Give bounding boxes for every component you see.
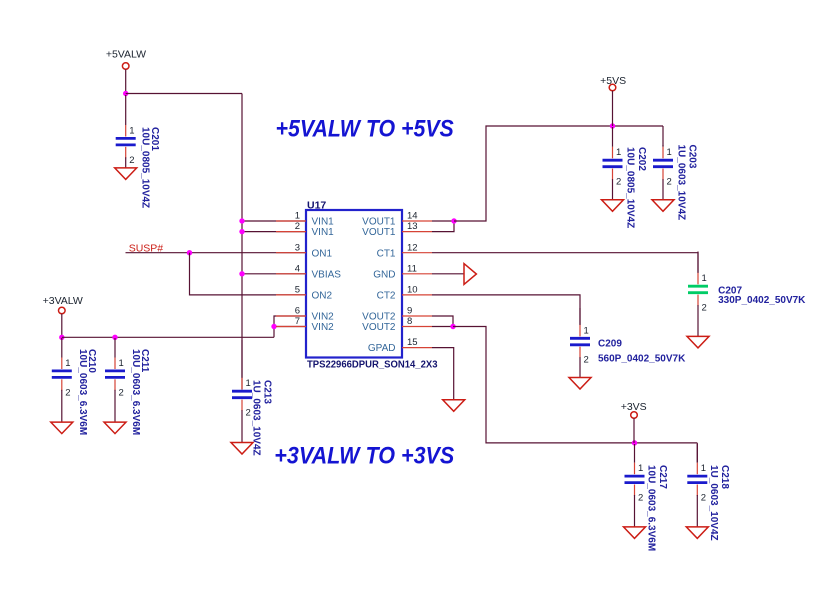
svg-text:1: 1 bbox=[584, 325, 589, 336]
wire SUSP# to ON1 pin 3 bbox=[126, 252, 307, 254]
svg-text:GPAD: GPAD bbox=[368, 343, 396, 354]
svg-text:7: 7 bbox=[295, 316, 300, 327]
svg-text:11: 11 bbox=[407, 263, 417, 274]
pin stub pin 2 bbox=[276, 231, 306, 233]
pin stub C207.1 bbox=[697, 273, 699, 285]
svg-text:C213: C213 bbox=[261, 380, 272, 404]
svg-text:U17: U17 bbox=[307, 200, 326, 212]
svg-text:10U_0805_10V4Z: 10U_0805_10V4Z bbox=[624, 147, 635, 228]
wire +5VS rail down to C203 bbox=[662, 126, 664, 147]
svg-text:6: 6 bbox=[295, 306, 300, 317]
wire GPAD pin 15 to ground bbox=[432, 348, 454, 400]
wire C207 pin 2 bbox=[697, 305, 699, 337]
svg-text:560P_0402_50V7K: 560P_0402_50V7K bbox=[598, 353, 686, 364]
wire VOUT2 pin 8 bbox=[432, 326, 453, 328]
svg-text:1: 1 bbox=[295, 211, 300, 222]
junction VOUT2 bbox=[450, 324, 455, 329]
wire C202 pin 1 bbox=[612, 127, 614, 147]
pin stub C210.2 bbox=[61, 379, 63, 391]
svg-text:VIN1: VIN1 bbox=[312, 217, 335, 228]
svg-text:+5VALW TO +5VS: +5VALW TO +5VS bbox=[276, 115, 454, 142]
svg-text:VIN2: VIN2 bbox=[312, 322, 335, 333]
wire C201 pin 1 bbox=[125, 95, 127, 125]
pin stub pin 11 bbox=[402, 273, 432, 275]
svg-text:10U_0603_6.3V6M: 10U_0603_6.3V6M bbox=[646, 465, 657, 551]
pin stub pin 10 bbox=[402, 294, 432, 296]
capacitor C202 bbox=[603, 160, 623, 167]
wire C209 pin 2 bbox=[579, 357, 581, 378]
capacitor C213 bbox=[232, 391, 252, 398]
wire C203 pin 1 bbox=[662, 145, 664, 147]
wire C217 pin 1 bbox=[634, 444, 636, 463]
junction C211 bbox=[112, 335, 117, 340]
svg-text:1: 1 bbox=[119, 358, 124, 369]
svg-text:VBIAS: VBIAS bbox=[312, 269, 342, 280]
svg-text:1: 1 bbox=[129, 125, 134, 136]
junction SUSP# branch bbox=[187, 250, 192, 255]
wire CT2 pin 10 to C209 bbox=[432, 295, 580, 325]
svg-text:GND: GND bbox=[373, 269, 395, 280]
wire +3VALW from power symbol bbox=[61, 314, 63, 338]
junction +3VALW / C210 bbox=[59, 335, 64, 340]
pin stub pin 3 bbox=[276, 252, 306, 254]
svg-text:10U_0805_10V4Z: 10U_0805_10V4Z bbox=[139, 127, 150, 208]
ground for C202 bbox=[602, 200, 624, 212]
wire C209 pin 1 bbox=[579, 308, 581, 325]
svg-text:1U_0603_10V4Z: 1U_0603_10V4Z bbox=[708, 465, 719, 541]
svg-text:2: 2 bbox=[65, 387, 70, 398]
pin stub C217.1 bbox=[634, 463, 636, 475]
svg-text:VOUT1: VOUT1 bbox=[362, 217, 396, 228]
wire VOUT1 pin 14 bbox=[432, 220, 454, 222]
junction at VIN1 pin 2 bbox=[239, 229, 244, 234]
wire +3VALW up to VIN2 pins bbox=[274, 316, 306, 337]
wire C211 pin 2 bbox=[114, 390, 116, 423]
wire C217 pin 2 bbox=[634, 495, 636, 527]
wire C218 pin 2 bbox=[696, 495, 698, 527]
wire to VIN2 pin 7 bbox=[274, 326, 306, 328]
svg-text:1U_0603_10V4Z: 1U_0603_10V4Z bbox=[676, 145, 687, 221]
pin stub C213.2 bbox=[241, 400, 243, 412]
junction +5VS / C202 bbox=[610, 123, 615, 128]
svg-text:2: 2 bbox=[702, 303, 707, 314]
svg-text:2: 2 bbox=[616, 177, 621, 188]
svg-text:2: 2 bbox=[638, 493, 643, 504]
svg-text:10U_0603_6.3V6M: 10U_0603_6.3V6M bbox=[77, 349, 88, 435]
wire VOUT2 to +3VS rail bbox=[453, 327, 697, 443]
svg-text:VIN1: VIN1 bbox=[312, 227, 335, 238]
pin stub C201.1 bbox=[125, 125, 127, 137]
svg-text:10U_0603_6.3V6M: 10U_0603_6.3V6M bbox=[130, 349, 141, 435]
junction +5VALW / C201 bbox=[123, 91, 128, 96]
svg-text:8: 8 bbox=[407, 316, 412, 327]
wire +3VS from power symbol bbox=[633, 418, 635, 443]
svg-text:VIN2: VIN2 bbox=[312, 312, 335, 323]
wire C210 pin 1 bbox=[61, 338, 63, 358]
svg-text:+5VS: +5VS bbox=[600, 75, 626, 87]
svg-text:15: 15 bbox=[407, 337, 418, 348]
svg-text:12: 12 bbox=[407, 242, 418, 253]
capacitor C210 bbox=[52, 371, 72, 378]
capacitor C203 bbox=[653, 160, 673, 167]
pin stub pin 15 bbox=[402, 347, 432, 349]
svg-text:CT1: CT1 bbox=[377, 248, 396, 259]
svg-text:1: 1 bbox=[246, 378, 251, 389]
pin stub C201.2 bbox=[125, 147, 127, 159]
svg-text:14: 14 bbox=[407, 211, 418, 222]
power symbol +5VS bbox=[609, 84, 616, 91]
svg-text:C202: C202 bbox=[636, 147, 647, 171]
svg-text:1: 1 bbox=[667, 147, 672, 158]
pin stub C213.1 bbox=[241, 378, 243, 390]
svg-text:3: 3 bbox=[295, 242, 300, 253]
svg-text:C209: C209 bbox=[598, 338, 622, 349]
junction at VIN1 pin 1 bbox=[239, 218, 244, 223]
svg-text:TPS22966DPUR_SON14_2X3: TPS22966DPUR_SON14_2X3 bbox=[307, 359, 438, 371]
wire C203 pin 2 bbox=[662, 179, 664, 200]
wire C207 pin 1 bbox=[697, 252, 699, 273]
svg-text:1: 1 bbox=[616, 147, 621, 158]
wire C202 pin 2 bbox=[612, 179, 614, 200]
pin stub pin 1 bbox=[276, 220, 306, 222]
wire VOUT2 pin 9 down bbox=[432, 316, 453, 327]
wire to pin 2 bbox=[242, 231, 306, 233]
capacitor C218 bbox=[687, 476, 707, 483]
svg-text:CT2: CT2 bbox=[377, 291, 396, 302]
svg-text:9: 9 bbox=[407, 306, 412, 317]
pin stub C203.2 bbox=[662, 169, 664, 181]
wire CT1 pin 12 to C207 bbox=[432, 253, 698, 273]
wire GND pin 11 bbox=[432, 273, 464, 275]
pin stub C209.1 bbox=[579, 325, 581, 337]
pin stub C202.1 bbox=[612, 147, 614, 159]
pin stub pin 13 bbox=[402, 231, 432, 233]
ground for C213 bbox=[231, 443, 253, 455]
pin stub C211.2 bbox=[114, 379, 116, 391]
pin stub C207.2 bbox=[697, 295, 699, 307]
svg-text:2: 2 bbox=[667, 177, 672, 188]
wire +5VALW horizontal to vertical bus bbox=[126, 93, 242, 95]
power symbol +3VS bbox=[631, 412, 638, 419]
IC U17 TPS22966 body bbox=[306, 210, 402, 358]
svg-text:ON1: ON1 bbox=[312, 248, 333, 259]
junction at VBIAS pin 4 bbox=[239, 271, 244, 276]
off-page connector GND arrow bbox=[464, 264, 476, 285]
svg-text:5: 5 bbox=[295, 285, 300, 296]
svg-text:ON2: ON2 bbox=[312, 291, 333, 302]
svg-text:C218: C218 bbox=[719, 465, 730, 489]
pin stub pin 8 bbox=[402, 326, 432, 328]
svg-text:1: 1 bbox=[702, 273, 707, 284]
svg-text:2: 2 bbox=[701, 493, 706, 504]
svg-text:C217: C217 bbox=[657, 465, 668, 489]
svg-text:13: 13 bbox=[407, 221, 418, 232]
pin stub pin 9 bbox=[402, 315, 432, 317]
pin stub C210.1 bbox=[61, 358, 63, 370]
pin stub C209.2 bbox=[579, 347, 581, 359]
svg-text:C203: C203 bbox=[686, 145, 697, 169]
wire C218 pin 1 bbox=[696, 444, 698, 463]
svg-text:2: 2 bbox=[246, 408, 251, 419]
capacitor C211 bbox=[105, 371, 125, 378]
power symbol +3VALW bbox=[59, 307, 66, 314]
pin stub C217.2 bbox=[634, 485, 636, 497]
capacitor C217 bbox=[625, 476, 645, 483]
wire VOUT1 up to +5VS rail bbox=[454, 126, 663, 221]
svg-text:1: 1 bbox=[65, 358, 70, 369]
svg-text:2: 2 bbox=[295, 221, 300, 232]
ground for GPAD bbox=[443, 400, 465, 412]
wire to pin 4 bbox=[242, 273, 306, 275]
svg-text:VOUT2: VOUT2 bbox=[362, 322, 396, 333]
power symbol +5VALW bbox=[122, 63, 129, 70]
svg-text:+3VALW: +3VALW bbox=[43, 295, 83, 307]
wire C213 pin 1 bbox=[241, 340, 243, 378]
svg-text:2: 2 bbox=[119, 387, 124, 398]
wire SUSP# branch down to ON2 pin 5 bbox=[190, 253, 307, 295]
svg-text:1: 1 bbox=[638, 463, 643, 474]
svg-text:VOUT1: VOUT1 bbox=[362, 227, 396, 238]
svg-text:2: 2 bbox=[129, 155, 134, 166]
capacitor C207 bbox=[688, 286, 708, 293]
wire C210 pin 2 bbox=[61, 390, 63, 423]
svg-text:+5VALW: +5VALW bbox=[106, 49, 146, 61]
pin stub pin 6 bbox=[276, 315, 306, 317]
ground for C201 bbox=[115, 168, 137, 180]
svg-text:10: 10 bbox=[407, 285, 418, 296]
pin stub C211.1 bbox=[114, 358, 116, 370]
pin stub pin 7 bbox=[276, 326, 306, 328]
capacitor C201 bbox=[116, 138, 136, 145]
svg-text:1: 1 bbox=[701, 463, 706, 474]
junction VOUT1 bbox=[451, 218, 456, 223]
svg-text:4: 4 bbox=[295, 263, 300, 274]
wire C201 pin 2 bbox=[125, 157, 127, 168]
pin stub pin 12 bbox=[402, 252, 432, 254]
ground for C218 bbox=[686, 527, 708, 539]
junction at VIN2 pin 7 bbox=[271, 324, 276, 329]
wire C211 pin 1 bbox=[114, 338, 116, 358]
wire to pin 1 bbox=[242, 220, 306, 222]
svg-text:330P_0402_50V7K: 330P_0402_50V7K bbox=[718, 295, 806, 306]
ground for C207 bbox=[687, 336, 709, 348]
wire +5VALW from power symbol bbox=[125, 69, 127, 93]
svg-text:2: 2 bbox=[584, 355, 589, 366]
ground for C211 bbox=[104, 422, 126, 434]
ground for C209 bbox=[569, 378, 591, 390]
svg-text:+3VS: +3VS bbox=[621, 401, 647, 413]
svg-text:+3VALW TO +3VS: +3VALW TO +3VS bbox=[274, 443, 454, 470]
wire +5VALW vertical bus down to C213 bbox=[241, 94, 243, 390]
pin stub C202.2 bbox=[612, 169, 614, 181]
pin stub pin 14 bbox=[402, 220, 432, 222]
pin stub C203.1 bbox=[662, 147, 664, 159]
pin stub C218.1 bbox=[696, 463, 698, 475]
svg-text:VOUT2: VOUT2 bbox=[362, 312, 396, 323]
ground for C210 bbox=[51, 422, 73, 434]
wire +3VALW rail bbox=[62, 336, 274, 338]
pin stub pin 4 bbox=[276, 273, 306, 275]
wire VOUT1 pin 13 up bbox=[432, 221, 454, 232]
ground for C203 bbox=[652, 200, 674, 212]
wire C213 pin 2 bbox=[241, 410, 243, 443]
pin stub C218.2 bbox=[696, 485, 698, 497]
junction +3VS / C217 bbox=[632, 440, 637, 445]
ground for C217 bbox=[624, 527, 646, 539]
capacitor C209 bbox=[570, 338, 590, 345]
wire +5VS from power symbol bbox=[612, 91, 614, 126]
pin stub pin 5 bbox=[276, 294, 306, 296]
wire +3VS rail down to C218 bbox=[696, 443, 698, 463]
